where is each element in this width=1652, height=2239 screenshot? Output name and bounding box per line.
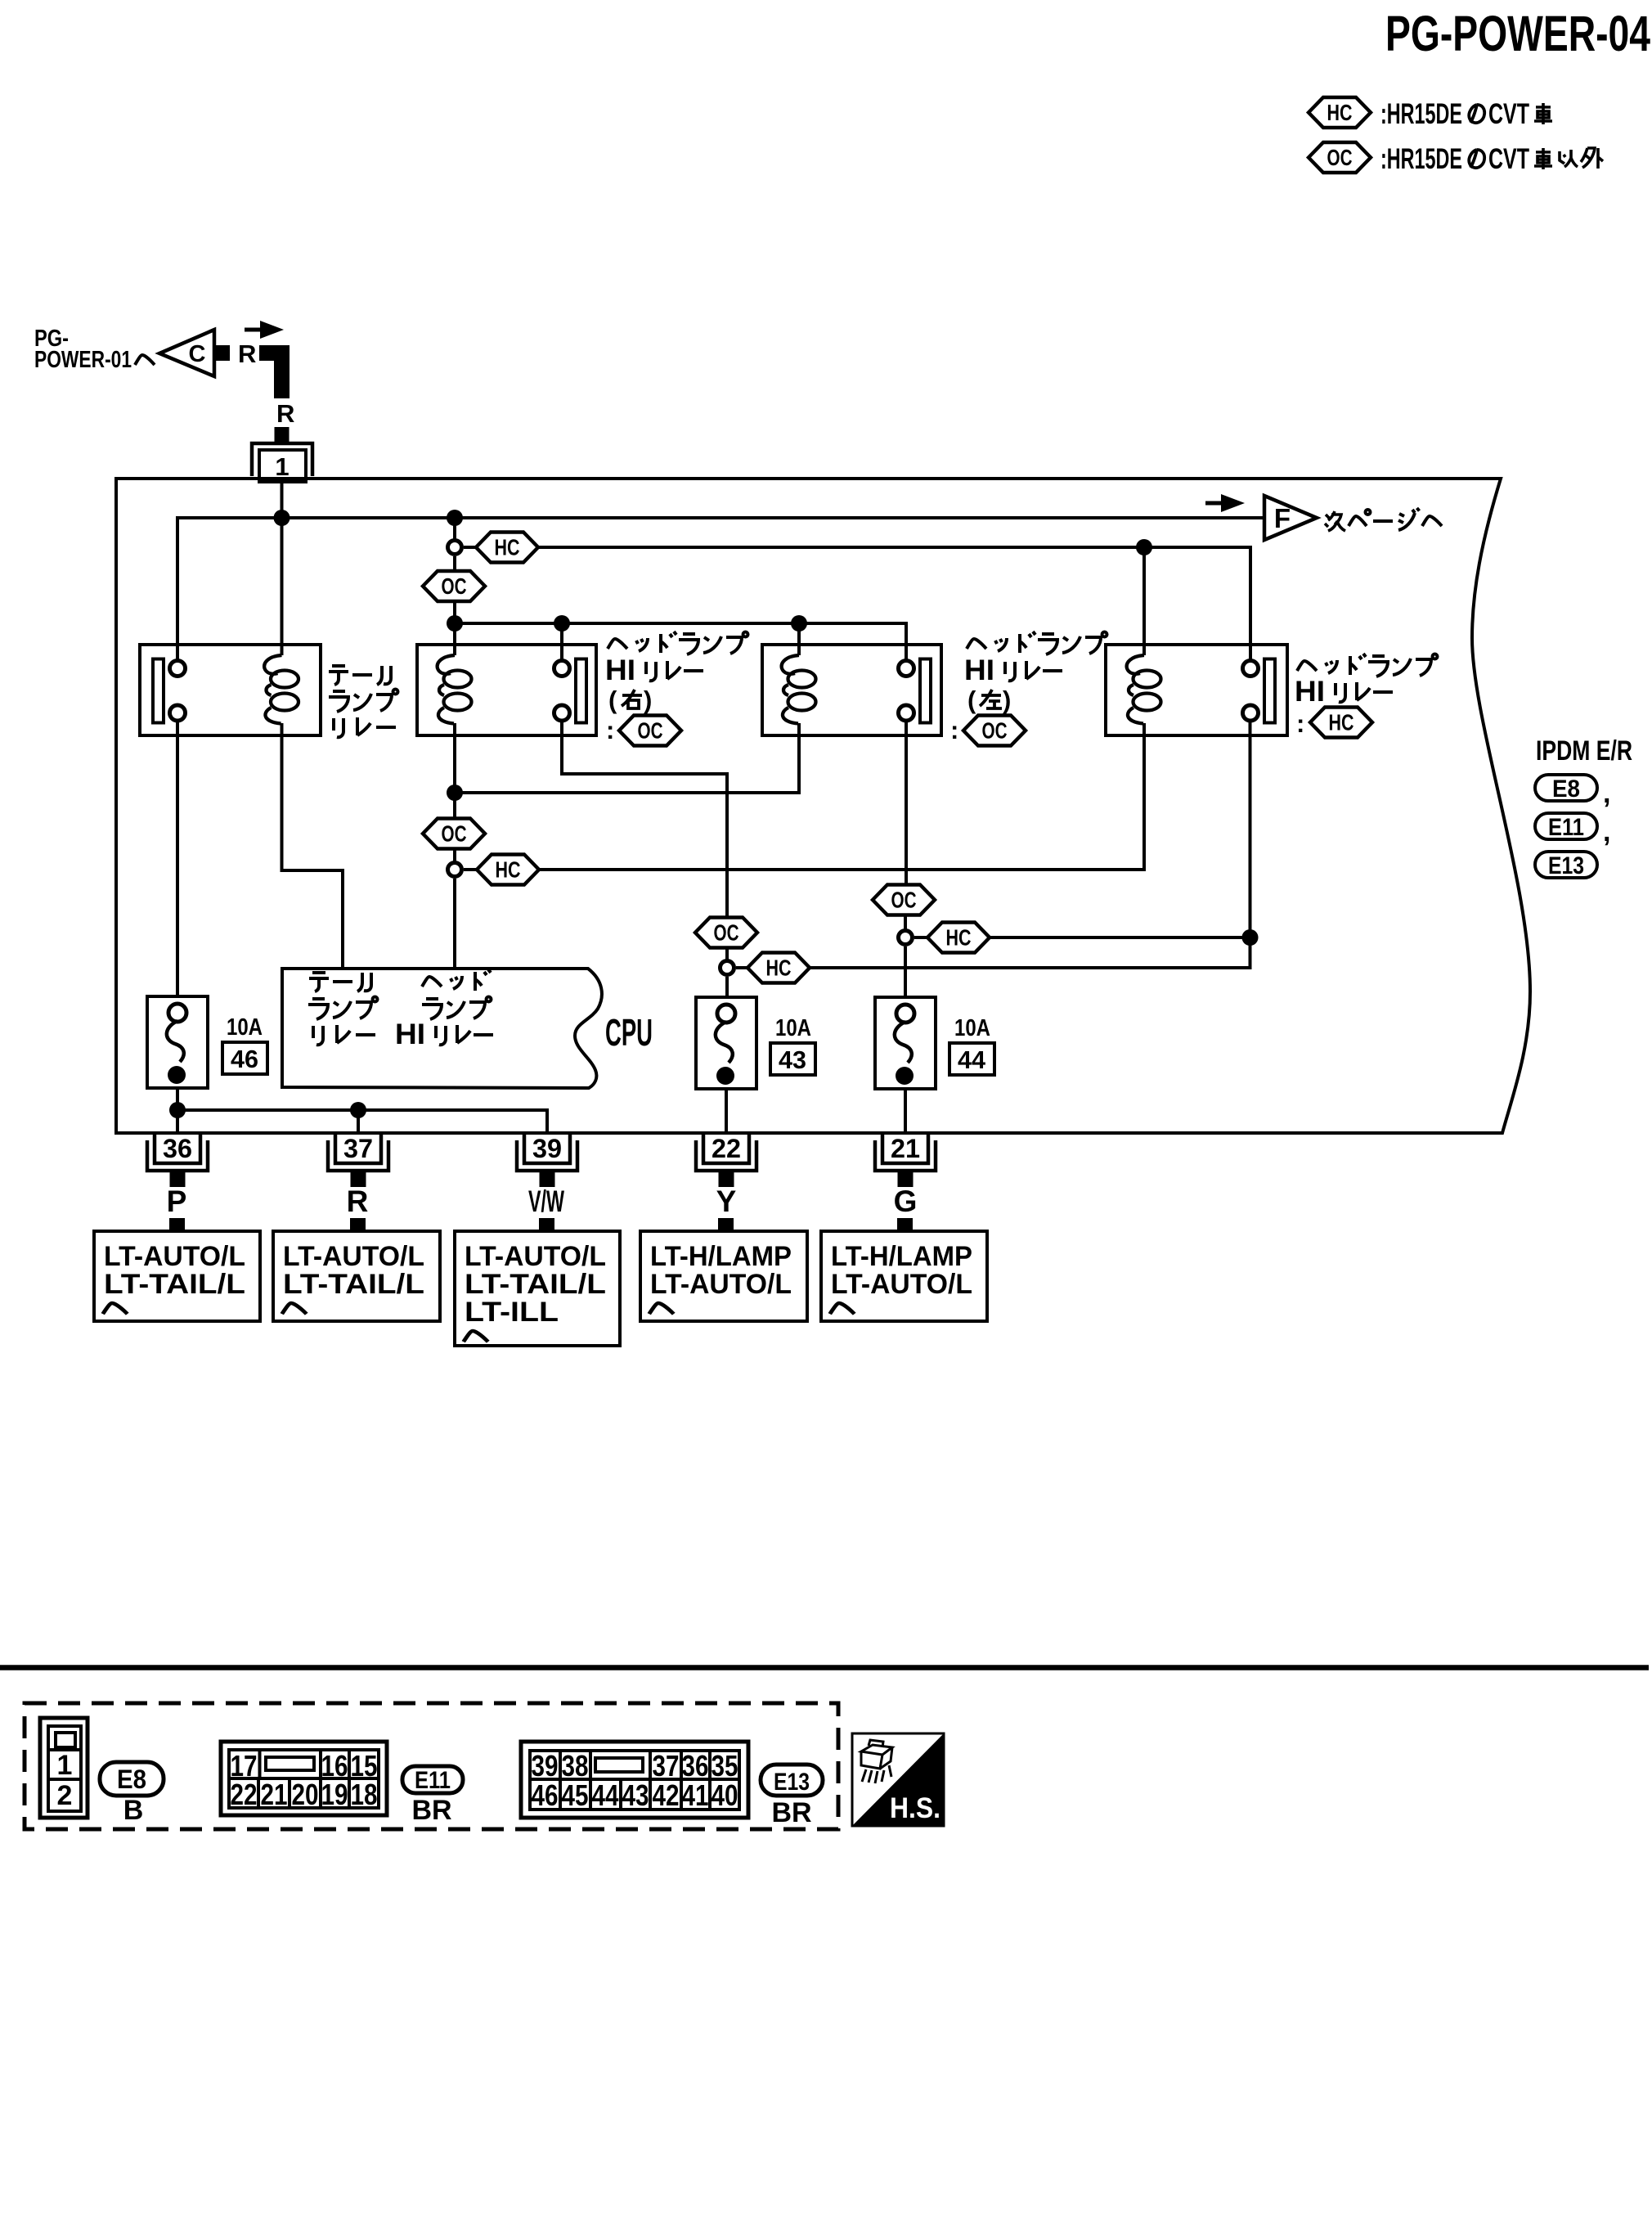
wire OC tag to OC bus xyxy=(453,601,456,623)
connector ref E13 xyxy=(1535,852,1597,879)
fuse F44 xyxy=(875,997,936,1089)
connector pin 37 xyxy=(328,1133,388,1187)
svg-text:R: R xyxy=(238,339,256,368)
svg-text:39: 39 xyxy=(532,1749,559,1783)
svg-text:21: 21 xyxy=(261,1778,288,1811)
relay K4 contact xyxy=(1243,659,1276,723)
svg-text:LT-AUTO/L: LT-AUTO/L xyxy=(650,1269,792,1300)
svg-text:OC: OC xyxy=(442,821,467,847)
svg-text:21: 21 xyxy=(891,1134,920,1163)
svg-text:42: 42 xyxy=(653,1778,680,1812)
wire splice down to fuse 44 xyxy=(904,946,907,1004)
wire relay1 contact down to fuse 46 xyxy=(176,721,179,1004)
svg-text:46: 46 xyxy=(532,1778,559,1812)
relay K2 headlamp HI relay RH box xyxy=(417,645,596,735)
svg-text:R: R xyxy=(276,399,294,428)
svg-text:IPDM E/R: IPDM E/R xyxy=(1536,735,1632,767)
connector ref E8 oval xyxy=(100,1762,164,1796)
destination box LT-AUTO/L LT-TAIL/L (pin36) xyxy=(94,1231,260,1321)
destination box LT-AUTO/L LT-TAIL/L LT-ILL (pin39) xyxy=(455,1231,620,1346)
svg-text:HI: HI xyxy=(395,1018,425,1050)
svg-text:E13: E13 xyxy=(1548,852,1584,879)
connector pin 1 of IPDM E/R xyxy=(252,443,312,482)
svg-text::HR15DE: :HR15DE xyxy=(1380,143,1462,175)
relay K3 coil xyxy=(782,655,816,724)
svg-text:HI: HI xyxy=(964,654,994,686)
wire relay2 coil feed xyxy=(453,623,456,655)
svg-text:C: C xyxy=(189,341,206,367)
relay K2 contact xyxy=(554,659,587,723)
svg-text:LT-TAIL/L: LT-TAIL/L xyxy=(465,1269,606,1300)
svg-text:36: 36 xyxy=(163,1134,192,1163)
svg-text:OC: OC xyxy=(982,718,1008,744)
svg-text:OC: OC xyxy=(442,573,467,599)
svg-text:19: 19 xyxy=(321,1778,348,1811)
wire to pin 37 xyxy=(357,1110,360,1133)
svg-text:POWER-01: POWER-01 xyxy=(34,347,132,373)
splice circle (HC branch) xyxy=(448,541,462,555)
relay K1 coil xyxy=(264,655,299,724)
flow arrow to next page xyxy=(1205,494,1245,512)
label 10A fuse 46 xyxy=(222,1014,267,1074)
relay K1 contact xyxy=(153,659,186,723)
section divider line xyxy=(0,1665,1649,1670)
wire fuse43 to pin 22 xyxy=(725,1089,728,1133)
connector pin 21 xyxy=(875,1133,936,1187)
legend text HR15DE no CVT car igai xyxy=(1380,143,1603,175)
svg-text:(: ( xyxy=(608,686,617,714)
wire fuse44 to pin 21 xyxy=(904,1089,907,1133)
stub to destination box 4 xyxy=(718,1218,734,1233)
HC wire y=1146 to relay4 contact drop xyxy=(990,936,1250,939)
svg-text:): ) xyxy=(644,686,652,714)
thick wire R (L-shape feed) xyxy=(259,345,290,398)
junction bus/relay2 branch xyxy=(447,510,463,526)
svg-text:CVT: CVT xyxy=(1488,98,1529,130)
svg-text:F: F xyxy=(1274,503,1291,533)
svg-text::: : xyxy=(1296,709,1304,738)
svg-text:OC: OC xyxy=(1327,145,1353,170)
H.S. inspection mark xyxy=(852,1733,944,1826)
svg-text::HR15DE: :HR15DE xyxy=(1380,98,1462,130)
wire relay2 coil down to junction xyxy=(453,723,456,793)
pins bus y=1357 xyxy=(177,1110,547,1133)
CPU box with wavy right edge xyxy=(282,969,602,1088)
tag OC on fuse44 feed xyxy=(873,885,935,915)
tag HC on upper branch xyxy=(476,533,538,563)
wire coil bus y=969 to relay3 coil xyxy=(455,723,799,793)
svg-text:E11: E11 xyxy=(1548,814,1584,841)
tag HC on relay4 coil return xyxy=(477,855,539,885)
connector ref E11 xyxy=(1535,813,1610,847)
splice circle on fuse43 feed xyxy=(721,961,734,975)
svg-text:LT-AUTO/L: LT-AUTO/L xyxy=(283,1241,424,1272)
connector pin 36 xyxy=(147,1133,208,1187)
svg-text:37: 37 xyxy=(343,1134,373,1163)
svg-text:LT-TAIL/L: LT-TAIL/L xyxy=(104,1269,245,1300)
wire relay3 contact down xyxy=(905,721,908,885)
svg-text:OC: OC xyxy=(714,920,739,946)
svg-text:2: 2 xyxy=(57,1780,73,1811)
pin stub into pin 1 xyxy=(275,427,290,442)
relay K2 coil xyxy=(438,655,472,724)
svg-text:HC: HC xyxy=(496,857,521,883)
HC wire y=1183 over to relay4 contact drop xyxy=(810,937,1250,968)
stub to destination box 5 xyxy=(897,1218,913,1233)
splice circle on CPU coil feed xyxy=(448,863,462,877)
wire splice down to fuse 43 xyxy=(725,977,729,1004)
connector ref E13 oval xyxy=(761,1765,823,1796)
relay K1 tail lamp relay box xyxy=(140,645,321,735)
svg-text:G: G xyxy=(894,1185,918,1218)
svg-text:V/W: V/W xyxy=(528,1185,564,1218)
wire from pin 1 down to bus xyxy=(281,482,284,518)
svg-text:20: 20 xyxy=(292,1778,319,1811)
relay K3 headlamp HI relay LH box xyxy=(762,645,941,735)
svg-text:44: 44 xyxy=(592,1778,619,1812)
svg-text:PG-POWER-04: PG-POWER-04 xyxy=(1385,6,1650,61)
flow arrow right xyxy=(245,321,284,339)
junction bus/pin37 xyxy=(350,1102,366,1118)
svg-text:46: 46 xyxy=(231,1045,258,1073)
svg-text:44: 44 xyxy=(958,1045,986,1074)
svg-text:OC: OC xyxy=(638,718,663,744)
wire relay2 contact down and over xyxy=(562,721,727,919)
svg-text:38: 38 xyxy=(562,1749,589,1783)
svg-text:41: 41 xyxy=(682,1778,709,1812)
wire relay4 coil feed xyxy=(1142,547,1146,655)
svg-text:CPU: CPU xyxy=(605,1011,653,1054)
svg-text:18: 18 xyxy=(351,1778,378,1811)
svg-text:LT-AUTO/L: LT-AUTO/L xyxy=(465,1241,606,1272)
svg-text:LT-AUTO/L: LT-AUTO/L xyxy=(104,1241,245,1272)
svg-text:R: R xyxy=(347,1185,369,1218)
junction OC bus / relay2 coil xyxy=(447,615,463,632)
tag OC on fuse43 feed xyxy=(695,918,757,948)
tag OC for relay K3 xyxy=(963,716,1026,746)
relay K1 coil feed wire from bus xyxy=(281,518,284,655)
label headlamp HI relay HC xyxy=(1295,654,1438,738)
junction pin1/bus xyxy=(274,510,290,526)
wire relay2 contact feed xyxy=(560,623,563,659)
junction fuse46/pin36 xyxy=(169,1102,186,1118)
wire bus to splice xyxy=(453,518,456,540)
destination box LT-AUTO/L LT-TAIL/L (pin37) xyxy=(273,1231,440,1321)
wire OC tag to splice xyxy=(453,848,456,863)
svg-text:37: 37 xyxy=(653,1749,680,1783)
svg-text:22: 22 xyxy=(712,1134,741,1163)
tag OC on x=556 upper xyxy=(423,571,485,601)
svg-text:HI: HI xyxy=(1295,676,1325,708)
junction coil bus xyxy=(447,785,463,801)
svg-text:10A: 10A xyxy=(227,1014,263,1041)
dashed connector-detail box xyxy=(25,1703,838,1829)
stub to destination box 1 xyxy=(169,1218,185,1233)
wire junction to OC tag xyxy=(453,793,456,818)
tag OC on CPU coil feed xyxy=(423,819,485,849)
svg-text:HC: HC xyxy=(766,955,792,981)
connector ref E8 xyxy=(1535,775,1610,809)
tag HC for relay K4 xyxy=(1310,708,1372,738)
wire relay3 coil feed xyxy=(797,623,801,655)
svg-text:Y: Y xyxy=(716,1185,737,1218)
connector face E11 drawing xyxy=(221,1742,387,1815)
svg-text:22: 22 xyxy=(231,1778,258,1811)
svg-text:45: 45 xyxy=(562,1778,589,1812)
svg-text:HC: HC xyxy=(495,535,520,560)
svg-text:LT-H/LAMP: LT-H/LAMP xyxy=(831,1241,972,1272)
svg-text:): ) xyxy=(1003,686,1011,714)
junction HC feed / relay4 coil xyxy=(1136,539,1152,555)
wire OC tag to splice xyxy=(725,947,729,961)
svg-text:BR: BR xyxy=(411,1795,451,1826)
connector face E8 drawing xyxy=(40,1718,88,1818)
main power bus wire y=633 xyxy=(177,518,1264,659)
label next page (tsugi pe-ji he) xyxy=(1325,508,1442,531)
tag HC on fuse44 alt feed xyxy=(927,923,990,953)
wire splice to HC tag xyxy=(464,868,477,871)
fuse F46 xyxy=(147,996,208,1088)
CPU internal label tail lamp relay xyxy=(308,973,378,1045)
svg-text:,: , xyxy=(1603,778,1610,809)
label 10A fuse 43 xyxy=(770,1015,815,1075)
label tail lamp relay (te-ru ranpu rire-) xyxy=(329,666,398,737)
svg-text:1: 1 xyxy=(57,1750,73,1781)
svg-text:,: , xyxy=(1603,816,1610,847)
svg-text:10A: 10A xyxy=(954,1015,990,1041)
svg-text:P: P xyxy=(167,1185,187,1218)
splice circle on fuse44 feed xyxy=(899,931,913,945)
wire splice down to CPU xyxy=(453,879,456,968)
svg-text::: : xyxy=(950,716,958,744)
IPDM E/R box outline with torn right edge xyxy=(116,479,1530,1133)
svg-text:E8: E8 xyxy=(117,1765,146,1794)
svg-text:36: 36 xyxy=(682,1749,709,1783)
svg-text:E13: E13 xyxy=(774,1769,810,1796)
svg-text:39: 39 xyxy=(532,1134,562,1163)
svg-text:E8: E8 xyxy=(1552,776,1580,803)
legend text HR15DE no CVT car xyxy=(1380,98,1552,130)
svg-text:43: 43 xyxy=(779,1045,806,1074)
label PG-POWER-01 he xyxy=(34,326,155,373)
tag OC for relay K2 xyxy=(619,716,681,746)
label 10A fuse 44 xyxy=(949,1015,994,1075)
wire splice to OC tag xyxy=(453,556,456,571)
svg-text:BR: BR xyxy=(771,1797,811,1828)
label headlamp HI relay (RH) xyxy=(605,632,748,744)
connector pin 22 xyxy=(696,1133,756,1187)
svg-text:B: B xyxy=(123,1795,144,1826)
OC feed bus y=762 xyxy=(455,623,906,659)
svg-text:LT-ILL: LT-ILL xyxy=(465,1297,559,1328)
label headlamp HI relay (LH) xyxy=(950,632,1107,744)
stub to destination box 3 xyxy=(539,1218,554,1233)
fuse F43 xyxy=(696,997,756,1089)
junction OC bus / relay3 coil xyxy=(791,615,807,632)
svg-text:10A: 10A xyxy=(775,1015,811,1041)
svg-text:LT-TAIL/L: LT-TAIL/L xyxy=(283,1269,424,1300)
connector face E13 drawing xyxy=(521,1742,748,1818)
svg-text:(: ( xyxy=(967,686,976,714)
svg-text:E11: E11 xyxy=(415,1767,451,1794)
svg-text:LT-H/LAMP: LT-H/LAMP xyxy=(650,1241,792,1272)
svg-text:1: 1 xyxy=(275,452,289,481)
junction relay4 contact / HC wires xyxy=(1242,929,1259,946)
legend tag HC xyxy=(1309,97,1371,128)
svg-text::: : xyxy=(606,716,614,744)
off-page connector C (to PG-POWER-01) xyxy=(159,330,230,376)
relay K4 headlamp HI relay (HC) box xyxy=(1106,645,1287,735)
svg-text:HC: HC xyxy=(1329,710,1354,735)
svg-text:HC: HC xyxy=(946,925,972,951)
relay K4 coil xyxy=(1127,655,1161,724)
off-page connector F (next page) xyxy=(1264,496,1317,540)
connector ref E11 oval xyxy=(402,1766,463,1794)
svg-text:OC: OC xyxy=(891,888,917,913)
svg-text:H.S.: H.S. xyxy=(890,1792,940,1824)
HC feed wire y=669 to relay 4 xyxy=(538,547,1250,659)
wire splice to HC tag xyxy=(736,966,747,969)
junction OC bus / relay2 contact xyxy=(554,615,570,632)
wire splice to HC tag xyxy=(914,936,927,939)
svg-text:35: 35 xyxy=(712,1749,738,1783)
svg-text:43: 43 xyxy=(622,1778,649,1812)
wire OC tag to splice xyxy=(904,915,907,931)
wire splice to HC tag xyxy=(464,546,477,549)
HC wire y=1063 to relay4 coil xyxy=(539,723,1144,870)
svg-text:40: 40 xyxy=(712,1778,738,1812)
wire fuse46 to pins bus xyxy=(176,1088,179,1133)
CPU internal label headlamp HI relay xyxy=(395,969,493,1050)
svg-text:HI: HI xyxy=(605,654,635,686)
destination box LT-H/LAMP LT-AUTO/L (pin21) xyxy=(821,1231,987,1321)
relay K3 contact xyxy=(899,659,931,723)
svg-text:CVT: CVT xyxy=(1488,143,1529,175)
tag HC on fuse43 alt feed xyxy=(747,953,810,983)
wire relay4 contact down xyxy=(1249,721,1252,937)
connector pin 39 xyxy=(517,1133,577,1187)
svg-text:LT-AUTO/L: LT-AUTO/L xyxy=(831,1269,972,1300)
stub to destination box 2 xyxy=(350,1218,366,1233)
legend tag OC xyxy=(1309,142,1371,173)
wire relay1 coil to CPU (jog) xyxy=(282,723,343,968)
destination box LT-H/LAMP LT-AUTO/L (pin22) xyxy=(640,1231,807,1321)
svg-text:HC: HC xyxy=(1327,100,1353,125)
